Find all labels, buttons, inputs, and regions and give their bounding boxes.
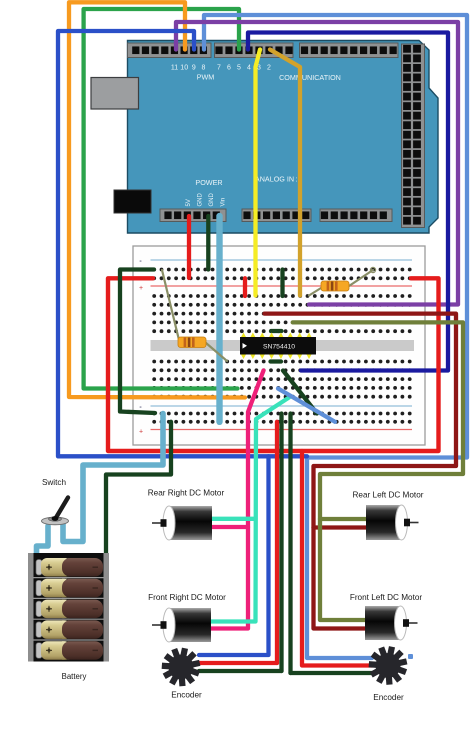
svg-text:ANALOG IN: ANALOG IN xyxy=(255,175,294,184)
svg-text:2: 2 xyxy=(267,65,271,72)
svg-text:+: + xyxy=(139,429,143,436)
svg-text:PWM: PWM xyxy=(197,73,215,82)
svg-text:Vin: Vin xyxy=(221,198,227,207)
svg-text:GND: GND xyxy=(198,193,204,207)
svg-text:Rear Left DC Motor: Rear Left DC Motor xyxy=(353,491,424,500)
svg-text:POWER: POWER xyxy=(195,178,222,187)
svg-text:5: 5 xyxy=(237,65,241,72)
svg-text:Encoder: Encoder xyxy=(171,691,202,700)
svg-text:Encoder: Encoder xyxy=(373,693,404,702)
svg-text:9: 9 xyxy=(192,65,196,72)
svg-text:10: 10 xyxy=(180,65,188,72)
svg-text:4: 4 xyxy=(247,65,251,72)
svg-text:+: + xyxy=(139,285,143,292)
svg-text:Switch: Switch xyxy=(42,478,67,487)
svg-text:6: 6 xyxy=(227,65,231,72)
svg-text:7: 7 xyxy=(217,65,221,72)
svg-text:COMMUNICATION: COMMUNICATION xyxy=(279,73,341,82)
svg-text:GND: GND xyxy=(209,193,215,207)
svg-text:SN754410: SN754410 xyxy=(263,344,295,351)
svg-text:Front Left DC Motor: Front Left DC Motor xyxy=(350,593,423,602)
svg-text:11: 11 xyxy=(171,65,178,72)
svg-text::: : xyxy=(296,177,298,184)
svg-text:Front Right DC Motor: Front Right DC Motor xyxy=(148,593,226,602)
svg-text:8: 8 xyxy=(202,65,206,72)
svg-text:5V: 5V xyxy=(186,199,192,206)
svg-text:Battery: Battery xyxy=(62,672,87,681)
svg-text:Rear Right DC Motor: Rear Right DC Motor xyxy=(148,489,225,498)
